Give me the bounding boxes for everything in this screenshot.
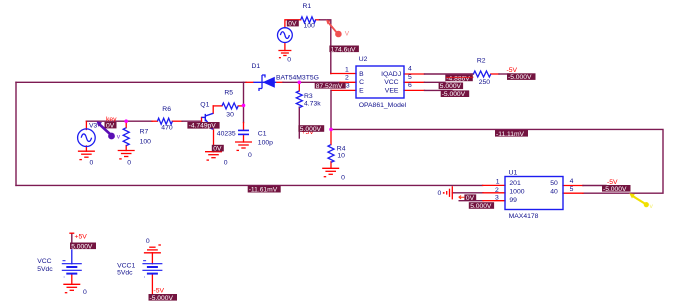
wire U1 pin4 to -5V — [583, 185, 606, 187]
svg-text:5Vdc: 5Vdc — [37, 266, 53, 273]
svg-text:R7: R7 — [140, 129, 149, 136]
battery VCC1 — [142, 261, 162, 277]
svg-text:-5.000V: -5.000V — [150, 295, 174, 302]
wire U2 pin5 stub — [404, 81, 425, 83]
wire R1 right to corner — [316, 19, 320, 21]
wire R3 bottom to +5V — [298, 107, 300, 138]
svg-text:0: 0 — [146, 238, 150, 245]
wire R1 corner down to U2 pinB — [320, 20, 331, 74]
svg-text:6: 6 — [408, 82, 412, 89]
wire R6 right red — [172, 120, 182, 122]
wire C1 top red — [243, 123, 245, 131]
wire diode left red — [246, 81, 253, 83]
wire U2 pinC stub — [340, 81, 356, 83]
svg-text:E: E — [359, 87, 364, 94]
svg-text:99: 99 — [509, 197, 517, 204]
AC source V2 — [278, 28, 293, 43]
wire R2 to -5V — [499, 73, 512, 75]
wire Q1 emitter down — [213, 130, 215, 152]
measurement label 0V at R1 — [287, 20, 299, 28]
svg-text:+5V: +5V — [75, 234, 88, 241]
ground U1 pin2 sideways — [443, 186, 452, 199]
svg-text:0V: 0V — [106, 123, 115, 130]
measurement label -4.886V — [445, 75, 473, 83]
svg-text:-5.000V: -5.000V — [508, 74, 532, 81]
svg-text:4: 4 — [570, 178, 574, 185]
wire U1 pin3 stub — [459, 200, 483, 202]
svg-text:Q1: Q1 — [200, 102, 209, 109]
svg-text:4: 4 — [408, 66, 412, 73]
measurement label -11.61mV — [248, 186, 281, 194]
wire U2 pin5 end — [425, 81, 446, 83]
svg-text:V3: V3 — [89, 122, 98, 129]
svg-text:R4: R4 — [337, 145, 346, 152]
svg-text:-11.11mV: -11.11mV — [496, 131, 525, 138]
wire R7 bottom red — [125, 146, 127, 151]
ground R4 — [322, 168, 339, 176]
wire V2 bottom lead — [284, 43, 286, 51]
resistor R6 — [157, 118, 172, 124]
svg-text:0: 0 — [90, 160, 94, 167]
svg-text:BAT54M3T5G: BAT54M3T5G — [276, 75, 319, 82]
wire Q1 base jog — [201, 117, 203, 121]
measurement label -5.000V U2pin6 — [441, 90, 470, 98]
wire V2 top lead — [285, 20, 301, 28]
svg-text:VEE: VEE — [385, 87, 399, 94]
svg-text:0V: 0V — [213, 146, 222, 153]
wire V3 top lead — [85, 121, 87, 129]
svg-text:R2: R2 — [477, 58, 486, 65]
junction node R7 — [124, 119, 128, 123]
svg-text:30: 30 — [226, 112, 234, 119]
svg-text:U1: U1 — [509, 170, 518, 177]
svg-text:5.000V: 5.000V — [300, 126, 322, 133]
svg-text:5.000V: 5.000V — [440, 83, 462, 90]
svg-text:0V: 0V — [466, 195, 475, 202]
wire R4 bottom — [330, 162, 332, 169]
svg-text:C1: C1 — [258, 131, 267, 138]
svg-text:1: 1 — [496, 178, 500, 185]
svg-text:0: 0 — [438, 190, 442, 197]
svg-text:0: 0 — [287, 57, 291, 64]
svg-text:OPA861_Model: OPA861_Model — [359, 102, 407, 109]
svg-text:v: v — [650, 203, 654, 210]
wire red across label — [446, 76, 473, 78]
wire R5 junction vertical — [243, 82, 245, 105]
op-amp box U2 — [356, 66, 404, 98]
measurement label -5.000V R2 — [507, 73, 536, 81]
junction node diode/R3 — [298, 81, 302, 85]
wire U2 pinB stub — [331, 73, 356, 75]
svg-text:3: 3 — [346, 82, 350, 89]
power symbol +5V at VCC top — [69, 232, 74, 234]
wire junction down to C1 — [243, 105, 245, 122]
wire feedback top — [331, 129, 663, 193]
svg-text:-5.000V: -5.000V — [442, 91, 466, 98]
resistor R5 — [222, 103, 238, 109]
wire R6 to Q1 base — [182, 120, 201, 122]
current arrow U1 pin3 — [459, 196, 465, 199]
wire key rail — [86, 120, 152, 122]
junction node feedback — [329, 128, 333, 132]
wire U1 pin4 stub — [563, 185, 583, 187]
wire U2 pin4 to R2 — [425, 73, 474, 75]
AC source V3 — [78, 129, 96, 147]
svg-text:IQADJ: IQADJ — [381, 71, 401, 78]
wire U2 pinE stub — [331, 89, 356, 91]
wire R6 left red — [152, 120, 157, 122]
svg-text:87.52mV: 87.52mV — [316, 83, 343, 90]
measurement label -5.000V U1pin4 — [602, 185, 631, 193]
svg-text:1000: 1000 — [509, 188, 524, 195]
wire diode right red — [276, 81, 283, 83]
svg-text:R1: R1 — [303, 3, 312, 10]
svg-text:-4.886V: -4.886V — [446, 75, 470, 82]
svg-text:U2: U2 — [359, 56, 368, 63]
wire R5 left red — [213, 105, 222, 107]
ground V3 — [78, 151, 95, 159]
svg-text:1: 1 — [345, 66, 349, 73]
svg-text:D1: D1 — [252, 63, 261, 70]
wire U1 pin2 stub — [453, 192, 484, 194]
svg-text:R5: R5 — [224, 90, 233, 97]
ground VCC bottom — [63, 284, 80, 292]
ground V2 — [278, 51, 291, 58]
svg-text:100p: 100p — [258, 140, 273, 147]
resistor R1 — [301, 17, 316, 23]
wire left loop top — [16, 81, 246, 83]
wire junction down to R4 — [330, 129, 332, 144]
svg-text:470: 470 — [161, 125, 173, 132]
diode D1 BAT54M3T5G — [253, 75, 276, 91]
wire VCC label to battery blue — [71, 250, 73, 264]
svg-text:5.000V: 5.000V — [71, 243, 93, 250]
probe yellow at U1 out — [629, 193, 653, 210]
measurement label 5.000V VCC — [70, 243, 96, 251]
svg-text:0: 0 — [127, 160, 131, 167]
wire U2 pin4 stub — [404, 73, 425, 75]
svg-text:50: 50 — [550, 180, 558, 187]
svg-text:V: V — [345, 31, 350, 38]
measurement label 5.000V U2pin5 — [439, 83, 464, 91]
wire VCC top — [71, 234, 73, 244]
resistor R4 vertical — [328, 145, 334, 163]
wire VCC1 battery bottom — [151, 274, 153, 295]
svg-text:2: 2 — [345, 75, 349, 82]
junction node R5/C1 — [242, 104, 246, 108]
svg-text:5: 5 — [570, 186, 574, 193]
svg-text:10: 10 — [337, 152, 345, 159]
wire R2 right red — [491, 73, 499, 75]
ground R7 — [118, 151, 135, 159]
wire bottom long to U1 pin1 — [16, 184, 483, 186]
measurement label -5.000V VCC1 — [149, 294, 178, 302]
measurement label 0V Q1 — [212, 145, 224, 153]
svg-text:201: 201 — [509, 180, 521, 187]
svg-text:250: 250 — [479, 79, 491, 86]
resistor R2 — [473, 71, 490, 77]
measurement label 5.000V R3 — [298, 125, 324, 133]
svg-text:VCC: VCC — [384, 79, 398, 86]
svg-text:C: C — [359, 79, 364, 86]
probe red at R1 — [326, 20, 350, 38]
wire R5 right red — [238, 105, 243, 107]
transistor Q1 — [202, 113, 214, 130]
measurement label 174.6uV — [329, 46, 359, 54]
svg-text:40: 40 — [550, 188, 558, 195]
svg-text:0: 0 — [248, 152, 252, 159]
measurement label 5.000V U1pin3 — [469, 202, 494, 210]
capacitor C1 — [238, 130, 249, 134]
ground Q1 emitter — [205, 152, 222, 160]
svg-text:MAX4178: MAX4178 — [509, 213, 539, 220]
resistor R3 vertical — [296, 91, 302, 108]
probe violet at key — [97, 121, 121, 140]
wire U2 pin6 end — [425, 89, 453, 91]
svg-text:5Vdc: 5Vdc — [117, 270, 133, 277]
wire VCC1 ground to battery — [151, 253, 153, 264]
wire U1 pin5 stub — [563, 192, 583, 194]
svg-text:0: 0 — [224, 160, 228, 167]
svg-text:5: 5 — [408, 74, 412, 81]
battery VCC — [62, 261, 82, 277]
ground C1 — [235, 142, 252, 150]
wire VCC battery bottom — [71, 274, 73, 285]
op-amp box U1 — [505, 177, 563, 210]
svg-text:100: 100 — [140, 139, 152, 146]
svg-text:VCC: VCC — [37, 258, 51, 265]
wire U1 pin1 stub — [483, 184, 505, 186]
svg-text:-5V: -5V — [154, 288, 165, 295]
svg-text:R6: R6 — [162, 106, 171, 113]
wire C1 bottom red — [243, 135, 245, 142]
svg-text:2: 2 — [495, 187, 499, 194]
svg-text:R3: R3 — [304, 93, 313, 100]
wire V3 bottom lead — [85, 146, 87, 151]
svg-text:40235: 40235 — [217, 131, 236, 138]
svg-text:4.73k: 4.73k — [304, 101, 321, 108]
wire R7 top red — [125, 121, 127, 128]
ground VCC1 top inverted — [144, 245, 161, 253]
svg-text:174.6uV: 174.6uV — [331, 46, 356, 53]
measurement label 0V rail — [105, 122, 117, 130]
measurement label -4.749pV — [187, 122, 219, 130]
wire U2 pin6 stub — [404, 89, 425, 91]
svg-text:-5V: -5V — [507, 67, 518, 74]
wire R3 top — [298, 82, 300, 91]
svg-text:-4.749pV: -4.749pV — [189, 123, 217, 130]
svg-text:-5.000V: -5.000V — [603, 186, 627, 193]
svg-text:v: v — [117, 133, 121, 140]
svg-text:0: 0 — [83, 289, 87, 296]
measurement label -11.11mV — [495, 130, 528, 138]
wire left loop vertical — [15, 82, 17, 185]
svg-text:5.000V: 5.000V — [470, 203, 492, 210]
svg-text:VCC1: VCC1 — [117, 262, 135, 269]
svg-text:B: B — [359, 71, 364, 78]
resistor R7 vertical — [123, 128, 129, 146]
measurement label 87.52mV — [315, 82, 346, 90]
svg-text:-11.61mV: -11.61mV — [249, 187, 278, 194]
wire diode to junction — [283, 81, 340, 83]
svg-text:3: 3 — [495, 195, 499, 202]
wire pinE down to junction — [330, 90, 332, 129]
measurement label 0V U1pin3 — [464, 194, 476, 202]
svg-text:100: 100 — [304, 23, 316, 30]
svg-text:0: 0 — [341, 175, 345, 182]
svg-text:0V: 0V — [288, 21, 297, 28]
wire Q1 collector up — [212, 106, 214, 113]
